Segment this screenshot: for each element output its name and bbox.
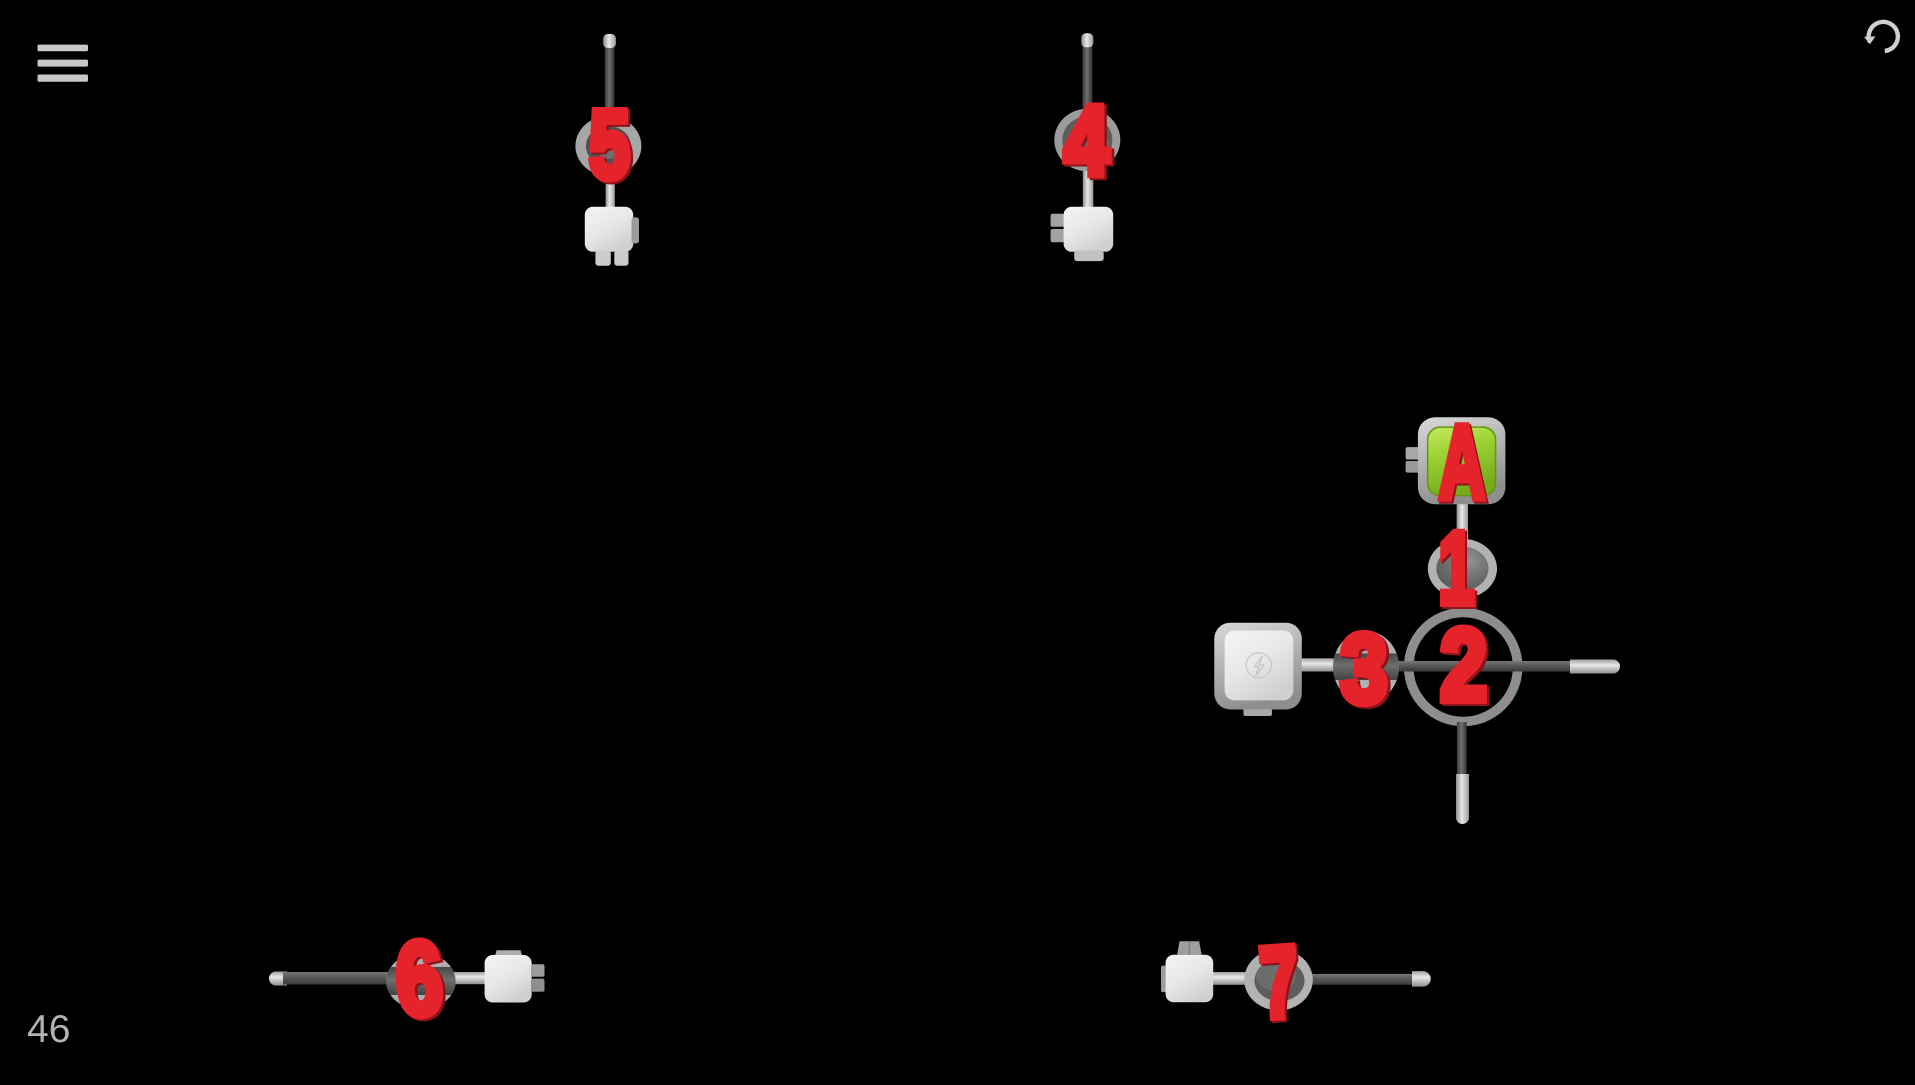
- svg-text:6: 6: [393, 920, 446, 1039]
- svg-text:4: 4: [1064, 87, 1109, 196]
- svg-text:2: 2: [1440, 607, 1487, 721]
- svg-text:A: A: [1439, 405, 1485, 520]
- svg-text:3: 3: [1340, 616, 1387, 724]
- svg-text:7: 7: [1256, 925, 1302, 1040]
- svg-text:5: 5: [589, 91, 630, 199]
